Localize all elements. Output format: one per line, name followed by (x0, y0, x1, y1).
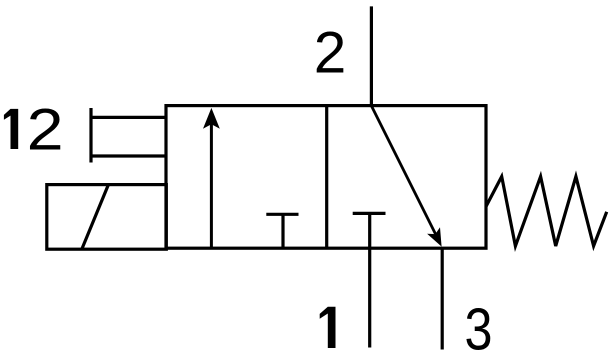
port 3 line (bottom) (441, 248, 444, 349)
solenoid actuator box (47, 185, 167, 250)
position divider line (325, 106, 328, 249)
label 12 (pilot port) (4, 98, 64, 163)
svg-text:2: 2 (314, 20, 347, 85)
valve body outline (two-position box) (166, 106, 486, 249)
port 1 line (bottom) (368, 248, 371, 347)
label 1 (port) (320, 307, 336, 348)
svg-text:3: 3 (465, 296, 493, 357)
pilot port 12 connection lines (91, 108, 166, 163)
port 2 line (top) (370, 6, 373, 105)
blocked port T right position (353, 213, 386, 248)
diagonal flow arrow right position (2 to 3) (371, 106, 441, 247)
blocked port T left position (266, 214, 298, 248)
flow arrow left position (1 to 2) (203, 108, 220, 248)
return spring (486, 177, 607, 247)
svg-text:2: 2 (27, 98, 64, 163)
